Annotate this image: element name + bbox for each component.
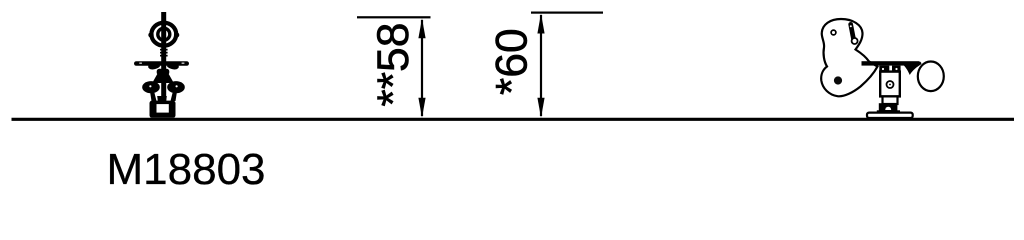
- left spring rider: spring block: [150, 101, 176, 118]
- right spring rider: seat clamp blocks: [879, 66, 900, 72]
- left spring rider: spring top plate: [157, 96, 167, 101]
- right spring rider: tail loop: [918, 62, 944, 92]
- svg-text:*60: *60: [488, 28, 537, 95]
- right spring rider: base flange: [867, 113, 913, 118]
- right spring rider: handle grip slot: [848, 22, 855, 40]
- dimension **58 extension line: [357, 16, 431, 18]
- left spring rider: pedal highlight dots: [149, 85, 177, 87]
- left spring rider: post ridges: [160, 49, 168, 57]
- left spring rider: pedal left: [142, 81, 160, 93]
- right spring rider: column bolt: [887, 81, 894, 88]
- left spring rider: spring block window: [157, 104, 169, 113]
- dimension **58 arrowhead bottom: [418, 98, 425, 118]
- svg-text:**58: **58: [369, 22, 418, 106]
- dimension text *60: [488, 28, 537, 95]
- left spring rider: handlebar ring outer: [151, 23, 176, 46]
- ground line: [12, 118, 1015, 121]
- right spring rider: body bolt: [834, 76, 842, 84]
- svg-text:M18803: M18803: [107, 145, 266, 194]
- label M18803: [107, 145, 266, 194]
- dimension **58 arrowhead top: [418, 18, 425, 38]
- right spring rider: animal body outline: [821, 19, 877, 96]
- right spring rider: tail junction wedge: [902, 62, 921, 76]
- left spring rider: seat clamp block: [157, 69, 170, 75]
- left spring rider: wing under bar left: [148, 65, 160, 69]
- dimension text **58: [369, 22, 418, 106]
- left spring rider: ring side grip left: [148, 32, 153, 37]
- dimension *60 arrowhead top: [537, 14, 544, 34]
- left spring rider: center post: [161, 12, 166, 102]
- right spring rider: handle pivot circle: [852, 38, 858, 44]
- dimension *60 extension line: [531, 12, 603, 14]
- right spring rider: spring housing: [877, 103, 900, 113]
- left spring rider: wing under bar right: [167, 65, 179, 69]
- dimension *60 arrow line: [540, 15, 542, 116]
- left spring rider: handlebar crossbar: [134, 61, 189, 66]
- dimension **58 arrow line: [421, 20, 423, 116]
- right spring rider: seat bar: [862, 61, 920, 65]
- left spring rider: leg trapezoid: [152, 74, 174, 83]
- right spring rider: lower column: [883, 96, 898, 104]
- left spring rider: lower leg left: [150, 92, 157, 102]
- left spring rider: lower leg right: [171, 92, 178, 102]
- left spring rider: handlebar ring inner: [158, 28, 170, 40]
- left spring rider: ring side grip right: [174, 32, 179, 37]
- dimension *60 arrowhead bottom: [537, 98, 544, 118]
- right spring rider: column: [880, 72, 900, 97]
- right spring rider: eye: [831, 30, 836, 35]
- left spring rider: pedal right: [167, 81, 185, 93]
